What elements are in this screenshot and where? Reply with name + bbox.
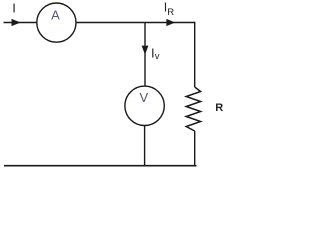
wire: resistor bottom lead: [194, 131, 196, 166]
wire: top horizontal from ammeter to right corner: [76, 22, 195, 24]
svg-text:A: A: [51, 7, 60, 22]
svg-text:R: R: [215, 102, 223, 114]
wire: input lead left: [4, 22, 38, 24]
voltmeter V1 circle: [125, 86, 164, 125]
wire: right vertical, corner to resistor top: [194, 22, 196, 87]
wire: bottom return: [4, 165, 197, 167]
resistor R zigzag: [186, 87, 200, 131]
svg-text:V: V: [139, 90, 148, 105]
svg-text:I: I: [12, 1, 16, 16]
wire: voltmeter bottom lead: [144, 126, 146, 167]
arrow: input current direction: [12, 19, 21, 26]
svg-text:R: R: [167, 7, 174, 18]
arrow: IR current direction: [166, 19, 175, 26]
wire: vertical branch down to voltmeter: [144, 23, 146, 87]
svg-text:v: v: [155, 51, 160, 62]
arrow: Iv current direction (down): [142, 46, 149, 55]
ammeter A1 circle: [37, 3, 76, 42]
